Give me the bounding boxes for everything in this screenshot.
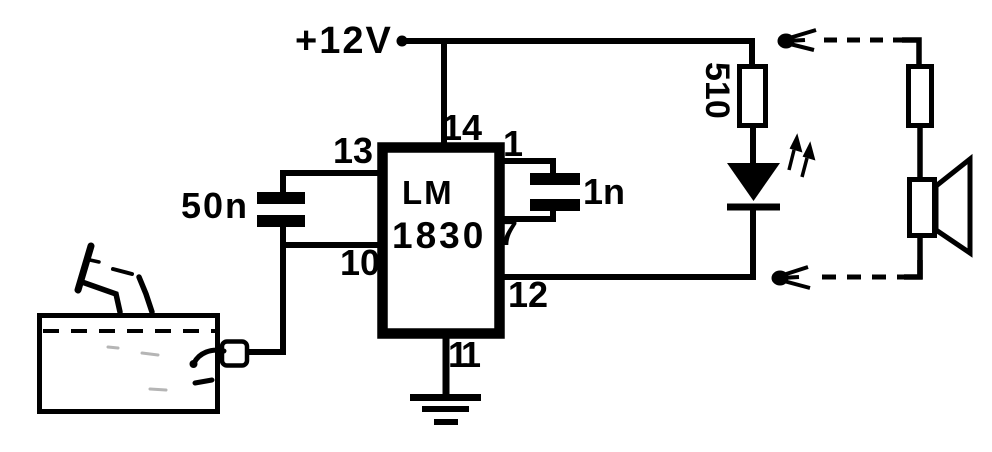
IC U1 LM1830 body xyxy=(383,148,500,334)
speaker cone xyxy=(936,159,970,253)
wire pin 10 xyxy=(283,242,380,248)
tank fluid level dashes xyxy=(43,329,215,333)
wire pin 7 to capacitor C2 xyxy=(500,208,553,219)
LED D1 cathode bar xyxy=(727,204,780,211)
wire LED to pin 12 rail xyxy=(750,204,756,279)
dashed light path bottom xyxy=(822,275,906,280)
speaker body xyxy=(910,180,935,236)
svg-text:14: 14 xyxy=(442,107,482,148)
wire resistor R1 to LED xyxy=(750,125,756,166)
wire speaker down lead xyxy=(917,235,923,279)
svg-text:510: 510 xyxy=(698,62,736,119)
wire pin 13 to capacitor C1 xyxy=(283,173,380,194)
LED D1 triangle xyxy=(727,163,780,201)
ground xyxy=(410,394,481,425)
svg-text:13: 13 xyxy=(333,130,373,171)
wire pin 1 to capacitor C2 xyxy=(500,161,553,176)
wire rail corner down to resistor 510 xyxy=(749,38,755,67)
resistor R1 body xyxy=(740,67,766,126)
dashed light path top xyxy=(824,38,903,43)
svg-text:1830: 1830 xyxy=(392,215,486,256)
capacitor C2 plates xyxy=(530,173,580,211)
wire pin 14 xyxy=(441,41,447,150)
LED light emission arrows xyxy=(789,136,814,177)
capacitor C1 plates xyxy=(257,192,305,227)
arrow into pin 12 node (bottom light path) xyxy=(774,267,811,288)
tank body xyxy=(40,316,218,412)
wire +12V rail xyxy=(402,38,752,44)
svg-text:7: 7 xyxy=(498,212,518,253)
svg-text:10: 10 xyxy=(340,242,380,283)
svg-text:50n: 50n xyxy=(181,185,249,226)
wire pin 11 to ground xyxy=(443,334,450,398)
power node dot xyxy=(397,36,408,47)
svg-text:12: 12 xyxy=(508,274,548,315)
probe tip hook xyxy=(190,350,225,368)
svg-text:1n: 1n xyxy=(583,171,625,212)
wire pin 12 xyxy=(500,274,756,280)
resistor R2 body xyxy=(909,67,932,126)
svg-text:1: 1 xyxy=(503,123,523,164)
wire bottom-right corner stub xyxy=(904,260,920,277)
arrow into +12V rail corner (top light path) xyxy=(780,30,817,50)
probe connector xyxy=(222,342,247,366)
faucet over tank xyxy=(78,246,152,312)
photocopy smudge marks in tank xyxy=(108,347,166,390)
probe drip mark xyxy=(195,380,212,383)
svg-text:+12V: +12V xyxy=(295,20,393,62)
wire top-right corner stub xyxy=(902,40,919,67)
svg-text:LM: LM xyxy=(402,174,454,211)
wire capacitor C1 down to probe xyxy=(247,226,283,352)
wire R2 to speaker xyxy=(917,124,923,178)
